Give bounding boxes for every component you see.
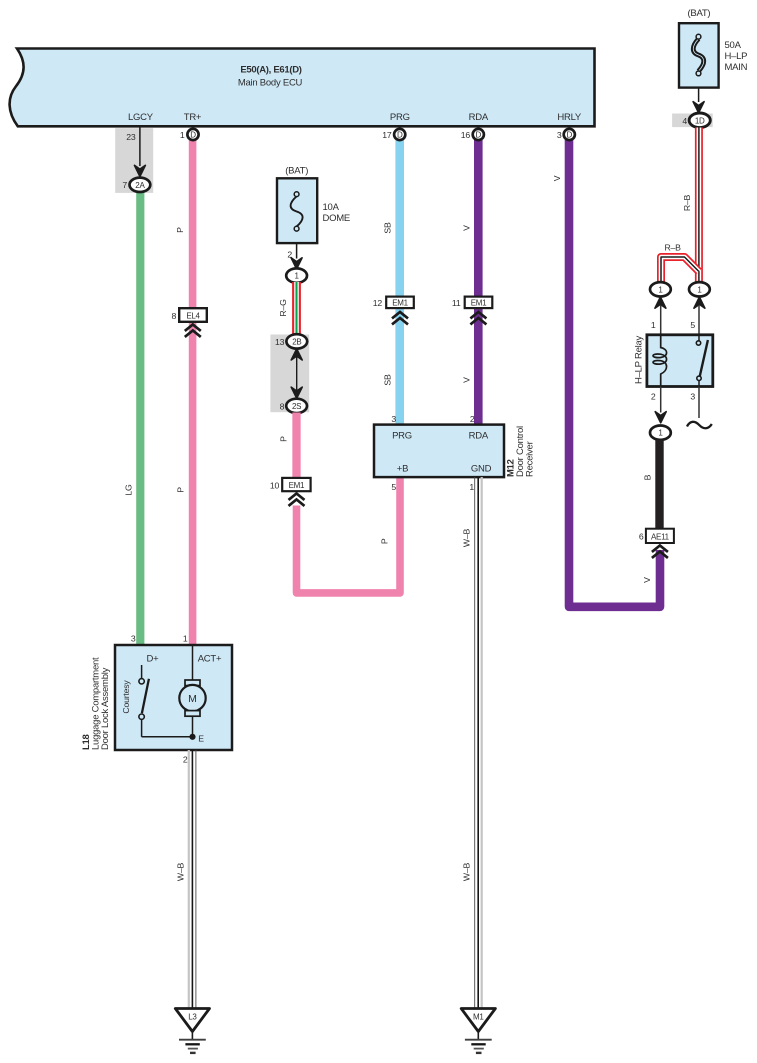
svg-text:EM1: EM1 xyxy=(471,299,487,308)
connector shield 2B/2S gray block xyxy=(270,335,309,413)
connector 1 left above relay xyxy=(650,282,671,296)
svg-text:E50(A), E61(D): E50(A), E61(D) xyxy=(240,65,301,76)
svg-text:1D: 1D xyxy=(695,116,705,125)
svg-text:6: 6 xyxy=(639,532,644,542)
svg-text:D+: D+ xyxy=(147,654,160,665)
wire V violet HRLY to AE11 xyxy=(552,140,660,607)
svg-text:10: 10 xyxy=(270,480,280,490)
svg-text:W–B: W–B xyxy=(175,862,185,881)
lead from relay pin 3 with continuation squiggle xyxy=(687,387,712,429)
wire P pink TR+ to L18 pin1 xyxy=(175,140,193,646)
svg-text:H–LP Relay: H–LP Relay xyxy=(634,335,645,384)
lead into relay pin 5 xyxy=(690,297,705,334)
svg-text:13: 13 xyxy=(275,337,285,347)
svg-text:2A: 2A xyxy=(135,181,145,190)
svg-text:+B: +B xyxy=(397,464,408,475)
svg-text:1: 1 xyxy=(469,482,474,492)
svg-text:V: V xyxy=(461,377,471,383)
svg-text:2S: 2S xyxy=(292,402,301,411)
svg-text:(BAT): (BAT) xyxy=(687,8,710,19)
svg-text:ACT+: ACT+ xyxy=(198,654,222,665)
svg-text:10A: 10A xyxy=(323,202,340,213)
svg-text:2: 2 xyxy=(651,392,656,402)
svg-text:SB: SB xyxy=(383,222,393,234)
svg-text:W–B: W–B xyxy=(461,862,471,881)
fuse 10A DOME (BAT) xyxy=(277,166,350,244)
connector 1D pin 4 xyxy=(682,113,710,128)
lead from 50A fuse to 1D xyxy=(693,88,704,113)
svg-text:Main Body ECU: Main Body ECU xyxy=(238,78,303,89)
wire LG green LGCY to L18 pin3 xyxy=(124,185,141,646)
pin 3 label at HRLY xyxy=(557,130,562,140)
relay switch xyxy=(696,335,708,387)
svg-text:50A: 50A xyxy=(725,40,742,51)
connector 2S pin 8 xyxy=(280,399,307,413)
wire P pink loop EM1 to M12 +B xyxy=(297,478,401,593)
svg-text:8: 8 xyxy=(172,311,177,321)
svg-text:H–LP: H–LP xyxy=(725,51,748,62)
pin 1 label at TR+ xyxy=(180,130,185,140)
svg-text:M1: M1 xyxy=(473,1013,484,1022)
wire R-B main 1D down xyxy=(682,128,699,284)
connector D at HRLY xyxy=(564,129,575,140)
pin 17 label at PRG xyxy=(382,130,392,140)
pin 23 label xyxy=(126,132,136,142)
relay H-LP Relay box xyxy=(634,335,713,387)
svg-text:L3: L3 xyxy=(188,1013,197,1022)
svg-text:PRG: PRG xyxy=(390,112,410,123)
wire SB sky blue PRG to M12 pin3 xyxy=(383,140,400,426)
svg-text:HRLY: HRLY xyxy=(557,112,582,123)
connector 1 below DOME xyxy=(286,268,307,282)
svg-text:TR+: TR+ xyxy=(184,112,202,123)
svg-text:V: V xyxy=(461,225,471,231)
svg-text:3: 3 xyxy=(690,392,695,402)
wire B black to AE11 xyxy=(642,440,659,530)
svg-text:2: 2 xyxy=(183,755,188,765)
svg-text:P: P xyxy=(176,487,186,493)
svg-text:V: V xyxy=(642,577,652,583)
wire W-B M12 GND to ground M1 xyxy=(461,477,481,1009)
ground M1 xyxy=(461,1009,495,1053)
connector 2B pin 13 xyxy=(275,334,307,348)
svg-text:4: 4 xyxy=(682,116,687,126)
node E junction xyxy=(189,734,204,744)
svg-text:Courtesy: Courtesy xyxy=(121,680,131,714)
svg-text:3: 3 xyxy=(557,130,562,140)
lead from relay pin 2 xyxy=(651,387,666,423)
svg-text:EM1: EM1 xyxy=(392,299,408,308)
connector D at TR+ xyxy=(187,129,198,140)
svg-text:PRG: PRG xyxy=(392,431,412,442)
svg-text:5: 5 xyxy=(690,320,695,330)
svg-text:D: D xyxy=(567,130,573,139)
pin 2 label below L18 xyxy=(183,755,188,765)
svg-text:MAIN: MAIN xyxy=(725,62,748,73)
svg-text:DOME: DOME xyxy=(323,213,351,224)
svg-text:LGCY: LGCY xyxy=(128,112,154,123)
svg-text:P: P xyxy=(279,436,289,442)
connector 1 right above relay xyxy=(689,282,710,296)
connector shield 1D gray block xyxy=(672,114,713,128)
svg-text:P: P xyxy=(379,538,389,544)
L18 Luggage Compartment Door Lock Assembly box xyxy=(81,634,232,751)
svg-text:D: D xyxy=(476,130,482,139)
pin 16 label at RDA xyxy=(461,130,471,140)
connector 2A pin 7 xyxy=(122,178,150,192)
svg-text:12: 12 xyxy=(373,298,383,308)
svg-text:1: 1 xyxy=(180,130,185,140)
svg-text:M: M xyxy=(188,693,197,705)
pin 2 of DOME fuse xyxy=(287,243,302,269)
svg-text:17: 17 xyxy=(382,130,392,140)
Main Body ECU E50(A), E61(D) box xyxy=(10,49,595,127)
connector EM1 pin 12 xyxy=(373,297,414,325)
svg-text:R–B: R–B xyxy=(664,243,681,253)
svg-text:R–B: R–B xyxy=(682,194,692,211)
connector D at PRG xyxy=(394,129,405,140)
svg-text:AE11: AE11 xyxy=(651,532,670,541)
svg-text:8: 8 xyxy=(280,401,285,411)
svg-text:3: 3 xyxy=(131,634,136,644)
svg-text:P: P xyxy=(175,227,185,233)
svg-text:B: B xyxy=(642,474,652,480)
svg-text:1: 1 xyxy=(183,634,188,644)
wire V violet RDA to M12 pin2 xyxy=(461,140,478,426)
wire W-B L18 pin2 to ground L3 xyxy=(175,750,196,1009)
connector 1 below relay xyxy=(650,426,671,440)
motor M in L18 xyxy=(179,646,205,737)
courtesy switch in L18 xyxy=(121,665,190,737)
svg-text:RDA: RDA xyxy=(469,112,489,123)
ground L3 xyxy=(175,1009,209,1053)
svg-text:EL4: EL4 xyxy=(186,312,200,321)
svg-text:7: 7 xyxy=(122,180,127,190)
svg-text:23: 23 xyxy=(126,132,136,142)
svg-text:E: E xyxy=(198,734,204,744)
svg-text:Receiver: Receiver xyxy=(525,441,536,477)
svg-text:2: 2 xyxy=(470,414,475,424)
junction arrows between 2B and 2S xyxy=(291,349,302,399)
connector shield 2A gray block xyxy=(115,128,153,193)
connector EM1 pin 10 xyxy=(270,478,311,506)
svg-text:D: D xyxy=(397,130,403,139)
svg-text:R–G: R–G xyxy=(278,299,288,317)
M12 Door Control Receiver box xyxy=(374,414,536,492)
svg-text:RDA: RDA xyxy=(469,431,489,442)
wire R-B branch to left connector xyxy=(661,243,699,284)
relay coil xyxy=(653,335,667,387)
svg-text:SB: SB xyxy=(383,374,393,386)
svg-text:3: 3 xyxy=(391,414,396,424)
svg-text:V: V xyxy=(552,175,562,181)
lead into relay pin 1 xyxy=(651,297,666,334)
svg-text:11: 11 xyxy=(452,298,461,308)
svg-text:EM1: EM1 xyxy=(289,481,305,490)
connector D at RDA xyxy=(473,129,484,140)
svg-text:5: 5 xyxy=(391,482,396,492)
svg-text:16: 16 xyxy=(461,130,471,140)
connector EL4 pin 8 xyxy=(172,308,207,337)
fuse 50A H-LP MAIN (BAT) xyxy=(679,8,748,88)
svg-text:Door Lock Assembly: Door Lock Assembly xyxy=(100,667,111,750)
wire LGCY pin23 to 2A xyxy=(134,128,145,177)
svg-text:(BAT): (BAT) xyxy=(285,166,308,177)
svg-text:1: 1 xyxy=(651,320,656,330)
svg-text:LG: LG xyxy=(124,484,134,496)
svg-text:W–B: W–B xyxy=(461,528,471,547)
wire P pink 2S to EM1 xyxy=(279,413,297,479)
svg-text:D: D xyxy=(190,130,196,139)
svg-text:2B: 2B xyxy=(292,337,301,346)
wire R-G red/green striped xyxy=(278,282,297,336)
connector AE11 pin 6 xyxy=(639,529,674,558)
svg-text:GND: GND xyxy=(471,464,492,475)
connector EM1 pin 11 xyxy=(452,297,492,325)
